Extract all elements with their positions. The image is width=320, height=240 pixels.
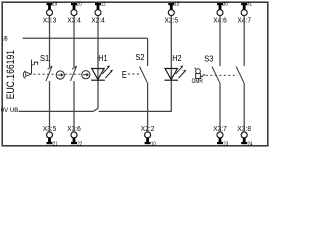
wire UB rail corner down to S2 <box>147 38 149 66</box>
S1 key actuator stem <box>31 60 33 74</box>
svg-text:20: 20 <box>77 2 82 8</box>
wire S2 to X2:2 <box>147 83 149 132</box>
terminal X2:4 (top, pin 12) <box>91 2 106 25</box>
svg-text:OMR: OMR <box>192 78 204 85</box>
svg-text:30: 30 <box>223 2 228 8</box>
svg-text:UB: UB <box>2 36 8 43</box>
S1 mechanical linkage dashed <box>33 73 81 75</box>
S3 mechanical linkage dashed <box>206 74 238 76</box>
wire X4:6 to S3 contact 1 <box>219 16 221 67</box>
svg-text:22: 22 <box>77 142 82 148</box>
svg-text:19: 19 <box>52 2 57 8</box>
wire X3:4 to S1 contact 2 <box>73 16 75 68</box>
wire X2:4 through H1 down <box>97 16 99 109</box>
terminal X3:5 (bottom, pin 21) <box>43 124 58 147</box>
svg-text:H2: H2 <box>172 54 182 63</box>
S1 contact 2 turn-indicator circle <box>82 71 90 79</box>
S3 key actuator circle <box>196 69 201 74</box>
svg-text:31: 31 <box>247 2 252 8</box>
border frame <box>2 2 268 146</box>
S1 key actuator head <box>32 62 38 65</box>
svg-text:S3: S3 <box>204 55 214 64</box>
terminal X2:2 (bottom, pin 10) <box>141 124 156 147</box>
LED H1 <box>91 69 105 81</box>
svg-text:13: 13 <box>174 2 179 8</box>
S1 contact 1 (NC, column X3:3) <box>46 66 52 81</box>
UB supply rail wire <box>23 37 148 39</box>
S3 contact 1 (NO, column X4:6) <box>212 67 220 84</box>
wire S1 contact 1 to X3:5 <box>49 81 51 132</box>
terminal X3:8 (bottom, pin 24) <box>237 124 252 147</box>
terminal X2:5 (top, pin 13) <box>165 2 180 25</box>
wire S1 contact 2 to X3:6 <box>73 81 75 132</box>
svg-text:S2: S2 <box>135 53 145 62</box>
terminal X3:3 (top, pin 19) <box>43 2 58 25</box>
LED H1 light arrows <box>102 65 113 78</box>
0V UB rail wire (right of H1 jog) <box>99 110 172 112</box>
S2 mechanical linkage dashed <box>128 73 140 75</box>
S3 key actuator (OMR) notch <box>195 68 197 70</box>
S2 contact (NO, column X2:2) <box>140 67 148 84</box>
wire S3 contact 2 to X3:8 <box>243 83 245 132</box>
svg-text:10: 10 <box>151 142 156 148</box>
wire X2:5 through H2 to 0V rail corner <box>170 16 172 112</box>
LED H2 light arrows <box>176 65 187 78</box>
S3 actuator zigzag link <box>200 74 205 76</box>
terminal X4:7 (top, pin 31) <box>237 2 252 25</box>
S3 key actuator body <box>196 74 201 79</box>
S1 contact 2 (NC, column X3:4) <box>71 66 77 81</box>
S1 key actuator triangle <box>26 72 31 76</box>
svg-text:H1: H1 <box>98 54 108 63</box>
svg-text:EUC.166191: EUC.166191 <box>5 50 17 99</box>
wire X4:7 to S3 contact 2 <box>243 16 245 67</box>
terminal X3:6 (bottom, pin 22) <box>67 124 82 147</box>
wire jog H1 to 0V rail <box>93 108 98 111</box>
terminal X3:7 (bottom, pin 23) <box>213 124 228 147</box>
svg-text:23: 23 <box>223 142 228 148</box>
S1 key actuator arc <box>23 71 25 78</box>
wire X3:3 to S1 contact 1 <box>49 16 51 68</box>
svg-text:S1: S1 <box>40 54 50 63</box>
S1 contact 1 turn-indicator circle <box>56 71 64 79</box>
wire S3 contact 1 to X3:7 <box>219 83 221 132</box>
S3 contact 2 (NO, column X4:7) <box>236 67 244 84</box>
terminal X3:4 (top, pin 20) <box>67 2 82 25</box>
svg-text:24: 24 <box>248 142 253 148</box>
svg-text:0V UB: 0V UB <box>1 107 19 114</box>
0V UB rail wire (left of H1 jog) <box>19 110 94 112</box>
terminal X4:6 (top, pin 30) <box>213 2 228 25</box>
LED H2 <box>165 69 179 81</box>
svg-text:12: 12 <box>101 2 106 8</box>
svg-text:E: E <box>122 70 127 81</box>
svg-text:21: 21 <box>53 142 58 148</box>
